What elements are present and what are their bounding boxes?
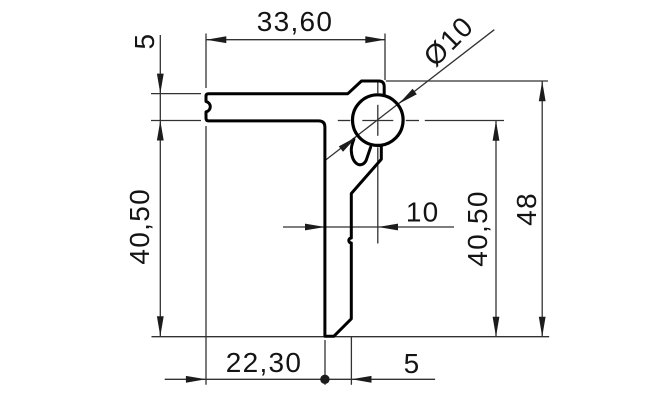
33,60 left extension line xyxy=(205,34,207,89)
svg-text:10: 10 xyxy=(406,197,440,228)
svg-text:5: 5 xyxy=(129,33,160,50)
10 dimension line xyxy=(283,226,454,228)
dimension texts xyxy=(124,6,542,379)
48 dimension line xyxy=(541,81,543,337)
33,60 left arrow xyxy=(206,36,226,43)
extension line top of 5 (left) xyxy=(151,93,201,95)
center cross horizontal xyxy=(362,120,393,122)
center cross vertical xyxy=(377,105,379,136)
svg-text:5: 5 xyxy=(404,348,421,379)
slot (teardrop) below barrel xyxy=(351,139,370,164)
48 top extension line xyxy=(386,80,548,82)
svg-text:22,30: 22,30 xyxy=(226,347,303,378)
22,30 left extension line xyxy=(205,126,207,385)
svg-text:33,60: 33,60 xyxy=(257,6,334,37)
centerline dash left of circle xyxy=(338,120,351,122)
40,50-right bottom arrow (down) xyxy=(493,317,500,337)
bottom 5 outside arrow (left) xyxy=(352,376,372,383)
center line below circle / 10 right extension xyxy=(377,147,379,243)
extension line bottom of 5 (left) xyxy=(151,120,201,122)
profile outline xyxy=(206,81,384,336)
5-left upper arrow (down) xyxy=(157,74,164,94)
5-left lower / 40,50-left top arrow (up) xyxy=(157,121,164,141)
bottom extension line y=336.7 xyxy=(152,336,550,338)
diameter leader arrow lower xyxy=(339,137,357,152)
center line above circle xyxy=(377,81,379,93)
left vertical dimension line (5 and 40,50) xyxy=(159,35,161,336)
arrowheads xyxy=(157,36,546,384)
40,50-left bottom arrow (down) xyxy=(157,316,164,336)
centerline dash right of circle xyxy=(406,120,419,122)
bottom extension line x=325 xyxy=(324,340,326,385)
22,30 left outside arrow (right) xyxy=(186,376,206,383)
40,50-right top arrow (up) xyxy=(493,121,500,141)
10 right outside arrow (left) xyxy=(378,224,398,231)
33,60 dimension line xyxy=(206,39,385,41)
svg-text:48: 48 xyxy=(511,192,542,226)
40,50 right dimension line xyxy=(495,121,497,337)
thin construction/dimension lines xyxy=(151,30,549,385)
48 top arrow (up) xyxy=(539,81,546,101)
svg-text:40,50: 40,50 xyxy=(462,190,493,267)
hinge barrel circle xyxy=(353,95,404,146)
40,50 right top extension line xyxy=(425,120,504,122)
48 bottom arrow (down) xyxy=(539,317,546,337)
leader arrows on circle xyxy=(339,89,417,152)
22,30/5 shared dot terminator xyxy=(320,375,329,384)
diameter leader arrow upper xyxy=(399,89,417,104)
33,60 right arrow xyxy=(365,36,385,43)
svg-text:40,50: 40,50 xyxy=(124,188,155,265)
bottom dimension line 22,30 / 5 xyxy=(165,378,435,380)
33,60 right extension line xyxy=(384,34,386,81)
bottom extension line x=351.4 xyxy=(350,337,352,385)
diameter leader line xyxy=(326,30,495,160)
10 left outside arrow (right) xyxy=(305,224,325,231)
